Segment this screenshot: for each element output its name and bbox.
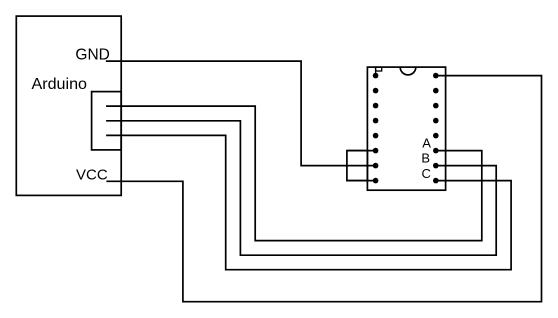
wire GND net xyxy=(106,61,376,166)
svg-text:Arduino: Arduino xyxy=(32,75,88,93)
wire IC pin6 lead xyxy=(347,150,376,152)
pin dots left column (pins 1-8) xyxy=(373,73,379,79)
IC U1 body xyxy=(367,67,445,190)
svg-text:VCC: VCC xyxy=(76,167,108,184)
Arduino box xyxy=(16,16,121,195)
svg-text:GND: GND xyxy=(75,46,109,63)
wire VCC net xyxy=(106,76,541,302)
connector J1 on Arduino xyxy=(92,92,122,150)
IC notch xyxy=(400,67,416,75)
svg-text:C: C xyxy=(422,166,431,181)
wire net B xyxy=(106,121,496,255)
pin dots right column (pins 16-9) xyxy=(433,73,439,79)
wire net C xyxy=(106,135,511,269)
svg-text:B: B xyxy=(421,150,430,165)
wire net A xyxy=(106,106,482,241)
connector J2 on IC left xyxy=(347,151,368,181)
wire IC pin8 lead xyxy=(347,180,376,182)
pin 1 marker xyxy=(376,67,382,71)
svg-text:A: A xyxy=(422,136,431,151)
